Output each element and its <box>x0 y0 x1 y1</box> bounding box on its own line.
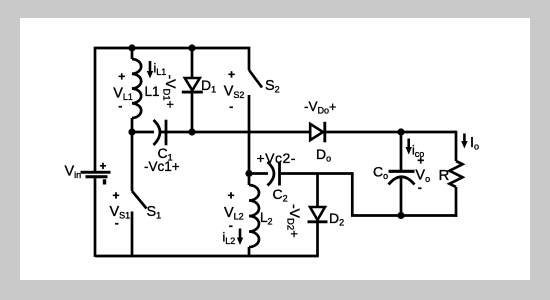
capacitor C2 <box>268 162 280 186</box>
svg-text:+Vc2-: +Vc2- <box>257 150 296 166</box>
wire output bottom rail <box>351 214 457 217</box>
svg-text:-Vc1+: -Vc1+ <box>144 159 180 174</box>
node dot C1/L1/S1 junction <box>128 128 135 135</box>
wire bottom rail <box>95 255 319 258</box>
svg-text:Vin: Vin <box>65 164 82 181</box>
wire L2 top stub <box>248 174 251 186</box>
svg-text:C2: C2 <box>273 186 288 204</box>
svg-text:-VD2+: -VD2+ <box>285 204 304 238</box>
inductor L1 <box>132 59 141 118</box>
svg-text:D1: D1 <box>201 77 216 95</box>
node dot output top <box>397 128 404 135</box>
switch S1 blade <box>132 191 147 209</box>
wire top rail <box>95 47 249 50</box>
svg-text:S2: S2 <box>265 78 280 95</box>
svg-text:+: + <box>228 189 235 203</box>
node dot output bottom <box>397 212 404 219</box>
wire C2 row right to corner <box>280 174 352 216</box>
wire S2 upper contact <box>248 47 251 70</box>
wire R branch upper <box>455 131 458 161</box>
wire L2 bottom stub <box>248 247 251 256</box>
current arrow iL2 <box>237 229 243 246</box>
svg-text:R: R <box>439 167 450 184</box>
svg-text:+: + <box>228 68 235 82</box>
svg-text:L2: L2 <box>260 210 273 227</box>
wire C2 row left <box>249 172 268 175</box>
battery Vin plates <box>81 171 111 185</box>
svg-text:-VDo+: -VDo+ <box>304 99 336 116</box>
capacitor C1 <box>154 120 167 146</box>
wire mid rail left (node to C1) <box>132 131 154 134</box>
wire D1 branch <box>191 48 194 132</box>
svg-text:+: + <box>417 153 424 167</box>
label -VD1+ rotated <box>160 75 179 109</box>
svg-text:iL2: iL2 <box>223 231 236 247</box>
svg-text:-: - <box>115 216 119 230</box>
wire mid rail C1 to Do <box>160 131 310 134</box>
svg-text:VS2: VS2 <box>224 84 245 101</box>
svg-text:Co: Co <box>373 164 388 182</box>
svg-text:VL1: VL1 <box>113 86 133 103</box>
diode Do <box>310 122 325 143</box>
inductor L2 <box>249 185 259 247</box>
wire L1 bottom stub <box>131 118 134 132</box>
wire left rail lower (Vin bottom) <box>94 178 97 257</box>
node dot D1 top rail <box>188 44 195 51</box>
svg-text:-: - <box>229 100 233 114</box>
node dot L1 top rail <box>128 44 135 51</box>
svg-text:D2: D2 <box>329 210 344 228</box>
svg-text:Io: Io <box>470 135 479 152</box>
capacitor Co <box>389 171 415 184</box>
svg-text:+: + <box>113 189 120 203</box>
wire left rail upper (Vin top) <box>94 47 97 171</box>
current arrow iL1 <box>147 61 153 79</box>
svg-text:+: + <box>118 70 125 84</box>
svg-text:L1: L1 <box>145 84 160 99</box>
diode D2 <box>308 207 328 222</box>
svg-text:-: - <box>229 219 233 233</box>
wire R branch lower <box>455 187 458 217</box>
svg-text:VS1: VS1 <box>110 204 131 221</box>
current arrow Io <box>461 134 467 149</box>
svg-text:-VD1+: -VD1+ <box>160 75 179 109</box>
svg-text:S1: S1 <box>147 204 162 221</box>
svg-text:Do: Do <box>316 146 331 164</box>
svg-text:+: + <box>100 161 107 173</box>
wire S2 lower contact <box>248 95 251 174</box>
wire S1 upper contact <box>131 132 134 191</box>
wire D2 branch <box>316 174 319 257</box>
wire mid rail Do to R corner <box>324 131 456 134</box>
wire S1 lower contact <box>131 212 134 257</box>
svg-text:-: - <box>418 181 422 195</box>
current arrow ico <box>406 139 412 155</box>
svg-text:VL2: VL2 <box>224 205 244 222</box>
label -VD2+ rotated <box>285 204 304 238</box>
switch S2 blade <box>249 70 262 88</box>
node dot C2/L2/S2 junction <box>245 170 252 177</box>
resistor R zigzag <box>450 161 463 187</box>
wire L1 top stub <box>131 48 134 59</box>
node dot D1 bottom <box>188 128 195 135</box>
wire Co branch <box>400 132 403 171</box>
svg-text:-: - <box>118 99 122 113</box>
diode D1 <box>182 78 203 92</box>
